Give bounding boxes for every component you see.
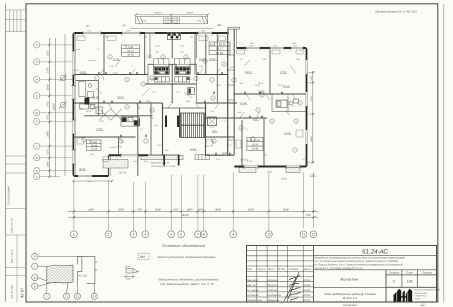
svg-text:Условные обозначения: Условные обозначения [162,243,206,248]
dim line under left room [72,180,113,182]
window glazing lines bottom [78,155,300,177]
svg-text:ДВ1: ДВ1 [218,24,222,27]
svg-text:РАБОТ: РАБОТ [415,297,422,300]
svg-text:Согласовано: Согласовано [7,186,11,205]
annotation: landing note [87,148,288,184]
stadia header row [386,274,437,276]
svg-text:16.92: 16.92 [278,84,284,87]
svg-text:1290: 1290 [47,161,50,167]
stair east wall [205,103,207,156]
svg-text:18.02: 18.02 [245,71,252,74]
tiny dimension texts row over corridor [74,24,297,163]
core fixture row left [154,77,169,82]
svg-text:части В.1 г. Костромы (шифр) Р: части В.1 г. Костромы (шифр) Р1 по с/у [315,267,364,270]
svg-text:ЯСдб: ЯСдб [221,152,229,155]
svg-text:46.96: 46.96 [79,168,86,171]
svg-text:19.05: 19.05 [281,178,288,181]
door/sanitary mark circles [82,55,302,152]
bottom grid extension lines and ticks [74,172,314,231]
svg-text:Смолин: Смолин [267,284,277,287]
svg-text:Н: Н [36,60,38,64]
door leaves [100,69,296,144]
core cupboard row left [154,59,170,65]
vent shaft checkered top [167,32,180,39]
window dimension tiny texts [87,24,297,48]
svg-text:2.49: 2.49 [266,171,272,174]
svg-text:Взам. инв. №: Взам. инв. № [11,218,14,233]
left dimension ticks [48,44,50,178]
gallery south wall [109,154,235,156]
svg-text:16.90: 16.90 [209,58,216,61]
apartment box 1 values [127,46,134,56]
svg-text:6000: 6000 [248,208,254,211]
balcony inner labels [164,18,180,23]
svg-text:1510: 1510 [249,45,253,48]
project description text [314,257,406,270]
key plan neighbour outline [77,256,95,283]
svg-text:Листов: Листов [421,272,432,275]
section cut markers left [59,75,67,109]
partition x217.3 [216,33,218,103]
room label underlines [79,57,316,177]
emblem white separations [397,291,408,302]
svg-text:03.95: 03.95 [304,299,311,302]
svg-text:1000: 1000 [310,75,313,81]
svg-text:Изм: Изм [247,268,252,271]
svg-text:3: 3 [133,233,135,237]
stair west wall [162,103,164,156]
svg-text:3060: 3060 [155,50,159,53]
svg-text:1700: 1700 [47,50,50,56]
svg-text:16.90: 16.90 [80,71,87,74]
svg-text:1: 1 [73,233,75,237]
outer wall top (left sections) [74,32,230,34]
svg-text:1510: 1510 [126,30,130,33]
porch left section [103,160,128,169]
core dark unit row right [175,67,190,75]
svg-text:7.60: 7.60 [310,174,315,177]
key plan hatched block [47,256,97,283]
misc leader arrows [96,60,296,98]
svg-text:Набоких: Набоких [267,289,278,292]
svg-text:12: 12 [312,233,316,237]
wall piers (darker wall segments between windows) [74,33,306,176]
svg-text:1640: 1640 [47,84,50,90]
svg-text:13200: 13200 [53,103,56,111]
core dark bath fill [188,88,190,93]
svg-text:2-к: 2-к [209,42,214,46]
svg-text:УПРАВЛЕНИЕ: УПРАВЛЕНИЕ [415,292,428,295]
designation cell divider [314,254,437,256]
apartment box 3 values [90,141,98,151]
staircase risers [181,113,205,138]
key plan axis bubbles left [32,253,98,299]
legend built-in element symbol [124,265,139,280]
core dark unit row left [154,67,169,75]
svg-text:1750: 1750 [47,67,50,73]
balcony top [130,17,214,29]
svg-text:Проверил: Проверил [247,294,259,297]
party wall x234 [233,29,235,155]
svg-text:Подп. и дата: Подп. и дата [11,249,14,264]
bottom dimension line [68,211,318,217]
windows bottom wall [78,155,300,176]
svg-text:5.000: 5.000 [247,160,253,163]
building walls group [73,27,306,176]
longitudinal wall E [74,136,235,138]
partition x150 [119,103,152,155]
signer rows [247,279,311,302]
svg-text:Е: Е [36,120,38,124]
core cupboard row right [175,59,191,65]
ventilation blocks (filled) [165,116,167,128]
svg-text:12: 12 [76,295,80,299]
apartment label box 2 [209,42,230,55]
longitudinal wall B [148,63,197,65]
longitudinal wall A [74,74,228,76]
svg-text:17.52: 17.52 [96,128,103,131]
core dark bath pair right flat [188,88,195,95]
svg-text:25.82: 25.82 [258,82,264,85]
svg-text:600: 600 [137,208,142,211]
stair inner wall [179,108,181,138]
svg-text:12.44: 12.44 [113,58,120,61]
apartment label box 3 [86,140,101,150]
joint closet ties [228,55,234,140]
svg-text:60.96: 60.96 [216,51,223,55]
door jamb blocks [163,155,165,166]
dim line above balcony [135,14,209,16]
left strip top cell block [6,10,27,32]
bath walls left flat [76,81,153,116]
ventilation block 2 [177,116,179,128]
svg-text:3000: 3000 [118,208,124,211]
windows left wall [73,51,75,164]
door jamb block 2 [178,155,180,166]
svg-text:4800: 4800 [310,136,313,142]
svg-text:42-97: 42-97 [20,287,25,298]
svg-text:40.98: 40.98 [180,45,185,48]
right dimension line [307,71,314,164]
svg-text:Ж: Ж [35,111,38,115]
party wall x227.7 [227,33,229,156]
left strip lower cells [6,156,27,302]
extra tiny annotation texts [76,48,306,163]
svg-text:10: 10 [267,233,271,237]
apartment label box 1 [122,45,140,56]
right section longitudinal wall [234,93,307,95]
header row labels [247,268,311,271]
svg-text:Разработал: Разработал [247,299,263,302]
svg-text:Дата: Дата [303,268,311,271]
svg-text:03.95: 03.95 [304,284,311,287]
svg-text:Нач. АС: Нач. АС [247,284,257,287]
svg-text:Инв. № подл.: Инв. № подл. [11,284,14,299]
svg-text:Лестница №1 - 2 шт: Лестница №1 - 2 шт [150,165,175,168]
bay window top right [227,29,229,33]
svg-text:17.82: 17.82 [258,90,265,93]
svg-text:14: 14 [93,295,97,299]
svg-text:910: 910 [144,36,147,39]
svg-text:747: 747 [87,181,92,184]
outer wall bottom of left room [74,155,109,176]
svg-text:Гл. инжен: Гл. инжен [247,289,259,292]
svg-text:КМ: КМ [140,255,145,259]
svg-text:АС-126: АС-126 [78,274,88,277]
svg-text:Мазурова: Мазурова [267,299,279,302]
outer wall top (right section) [237,47,307,49]
partition x242 [242,48,270,167]
partition x135.5 [138,33,145,176]
svg-text:Кондратов: Кондратов [267,294,281,297]
svg-text:61.34: 61.34 [91,148,98,151]
apartment box 4 values [247,139,261,151]
svg-text:А2: А2 [420,303,425,307]
svg-text:3000: 3000 [155,208,161,211]
svg-text:Копировал: Копировал [343,303,357,307]
legend washing machine symbol [139,253,150,259]
windows top wall [83,33,303,48]
svg-text:4: 4 [144,233,146,237]
svg-text:А: А [34,285,36,289]
partition x183.4 [190,33,197,103]
window glazing lines top [83,32,303,48]
longitudinal wall D right section [206,117,268,119]
svg-text:1.02: 1.02 [176,91,180,94]
svg-text:1210: 1210 [293,45,297,48]
svg-text:40.98: 40.98 [155,45,160,48]
window glazing lines left [73,51,74,164]
svg-text:7: 7 [197,233,199,237]
wall piers left and right walls [73,34,306,175]
bottom axis bubbles 1-12 [71,231,317,238]
svg-text:36.98: 36.98 [74,69,80,72]
svg-text:6000: 6000 [283,208,289,211]
core wall below fixtures [145,83,197,85]
svg-text:61.24-АС: 61.24-АС [362,249,388,256]
svg-text:44.90: 44.90 [127,54,134,57]
outer wall left [72,33,74,176]
outer wall bottom main [234,166,307,168]
stage header [389,272,433,275]
kitchen unit lower flat [121,117,139,126]
svg-text:0.9к: 0.9к [165,149,169,152]
svg-text:Лист: Лист [405,272,414,275]
svg-text:Лист: Лист [267,268,276,271]
porch right-2 [286,168,300,173]
svg-text:7/38: 7/38 [128,46,134,49]
signatures squiggles [284,272,301,301]
svg-text:2400: 2400 [186,208,193,211]
svg-text:2: 2 [108,233,110,237]
party spine x170.4 [169,33,176,103]
svg-text:В осях 1-9: В осях 1-9 [343,296,357,300]
left axis extension lines [40,45,74,177]
svg-text:70.08: 70.08 [113,72,119,75]
left dimension line [50,34,66,177]
svg-text:Б: Б [36,169,38,173]
svg-text:2450: 2450 [47,131,50,138]
door jamb dark ticks [99,72,282,155]
left strip rotated labels [7,186,25,299]
right dimension values [310,75,313,141]
svg-text:ОАО КОСТРОМАГОРСТРОЙ: ОАО КОСТРОМАГОРСТРОЙ [415,289,441,292]
core fixture row right [175,77,190,82]
svg-text:15.10: 15.10 [283,85,290,88]
svg-text:ПУ: ПУ [136,270,140,273]
svg-text:Кол.уч: Кол.уч [257,268,265,271]
svg-text:8: 8 [203,233,205,237]
lift shaft cross [208,117,217,126]
partition x288 bath [272,96,307,112]
dimension values [88,208,311,217]
left axis bubbles [34,42,40,180]
svg-text:№ док: № док [278,268,286,271]
partition x205.8 [205,33,207,75]
svg-text:22.98: 22.98 [239,102,247,105]
organization logo emblem [394,289,413,302]
svg-text:39.48: 39.48 [252,148,259,151]
sheet outer edge right [443,4,445,302]
svg-text:600: 600 [306,214,311,217]
window glazing lines right [306,60,307,144]
window sill ticks top wall [72,31,304,169]
svg-text:136: 136 [407,280,413,284]
sheet outer edge left [5,4,7,303]
svg-text:Жилой дом: Жилой дом [339,278,358,282]
longitudinal wall C [74,102,238,104]
svg-text:16.85: 16.85 [252,143,259,146]
svg-text:Зав.сект: Зав.сект [247,279,259,282]
svg-text:- место установки стиральной м: - место установки стиральной машины [156,255,216,259]
svg-text:1170: 1170 [47,149,50,155]
svg-text:Ориентировка см. л. АС-126: Ориентировка см. л. АС-126 [375,10,417,14]
svg-text:К: К [36,94,38,98]
svg-text:10.07: 10.07 [117,96,124,99]
entrance porch at staircase [141,155,210,160]
svg-text:Б: Б [34,276,36,280]
svg-text:Стадия: Стадия [389,272,400,275]
svg-text:03.95: 03.95 [304,289,311,292]
svg-text:под нижней выдвиж. кварт. См.: под нижней выдвиж. кварт. См. п. 16 [160,282,214,286]
misc small furniture marks [77,36,303,162]
stair hall top wall [163,107,206,109]
porch right-1 [239,168,256,173]
title block left table grid [247,246,314,303]
apartment box 2 values [209,42,226,54]
svg-text:А: А [36,175,38,179]
svg-text:03.95: 03.95 [304,279,311,282]
partition x264 [263,118,265,167]
apartment label box 4 [247,137,263,150]
svg-text:36.98: 36.98 [86,110,92,113]
svg-text:1.02: 1.02 [152,91,156,94]
key plan bubble leaders [38,255,81,257]
description cell bottom [314,269,437,271]
svg-text:6.52: 6.52 [212,130,217,133]
partition x104 [103,33,105,75]
dimension tick slashes [73,210,315,218]
svg-text:49.05: 49.05 [125,265,132,268]
svg-text:4.67: 4.67 [253,118,258,121]
svg-text:(4775): (4775) [119,172,126,175]
left dimension values (rotated) [47,50,56,167]
title block outline [247,246,437,303]
svg-text:1700: 1700 [47,101,50,107]
svg-text:17.52: 17.52 [280,71,287,74]
svg-text:870: 870 [47,115,50,120]
outer wall right [306,48,308,167]
bath fixtures left flat [79,81,103,113]
svg-text:6: 6 [180,233,182,237]
svg-text:П: П [36,43,38,47]
room area labels [79,55,315,178]
svg-text:7.08: 7.08 [147,55,152,58]
svg-text:11: 11 [65,295,68,299]
svg-text:03.95: 03.95 [304,294,311,297]
lift shaft [208,117,217,126]
svg-text:3060: 3060 [180,50,184,53]
svg-text:760: 760 [190,36,193,39]
svg-text:15.10: 15.10 [92,96,99,99]
svg-text:3400: 3400 [88,208,94,211]
partition x272 [271,94,273,111]
svg-text:28.04: 28.04 [186,12,194,15]
partition x195 [194,33,196,75]
balcony number labels [142,18,202,24]
svg-text:ПРОЕКТНЫХ: ПРОЕКТНЫХ [415,295,428,298]
svg-text:9: 9 [232,233,234,237]
svg-text:16.90: 16.90 [216,84,222,87]
svg-text:1510: 1510 [273,45,277,48]
svg-text:Подпись: Подпись [289,268,300,271]
svg-text:Морозов: Морозов [267,279,278,282]
svg-text:8.52: 8.52 [117,146,122,149]
svg-text:1510: 1510 [87,30,91,33]
svg-text:3000: 3000 [215,208,221,211]
core tiny labels [152,45,185,94]
svg-text:0.9к: 0.9к [154,124,158,127]
svg-text:62.73: 62.73 [127,50,134,53]
hall X marks [99,109,122,121]
sheet title [324,292,376,300]
partition x157.9 [148,33,154,84]
svg-text:600: 600 [174,208,179,211]
svg-text:11: 11 [302,233,306,237]
svg-text:24000: 24000 [180,214,189,217]
key plan axis bubbles bottom [44,293,50,299]
svg-text:В: В [36,156,38,160]
svg-text:3100: 3100 [310,96,313,102]
svg-text:1510: 1510 [201,30,205,33]
svg-text:5: 5 [170,233,172,237]
svg-text:КМ: КМ [80,107,83,110]
bath fixtures right section [276,99,299,108]
svg-text:21.28: 21.28 [283,132,291,135]
svg-text:600: 600 [199,208,204,211]
organization name [415,289,441,301]
svg-text:28.010: 28.010 [153,12,162,15]
windows right wall [306,60,308,144]
